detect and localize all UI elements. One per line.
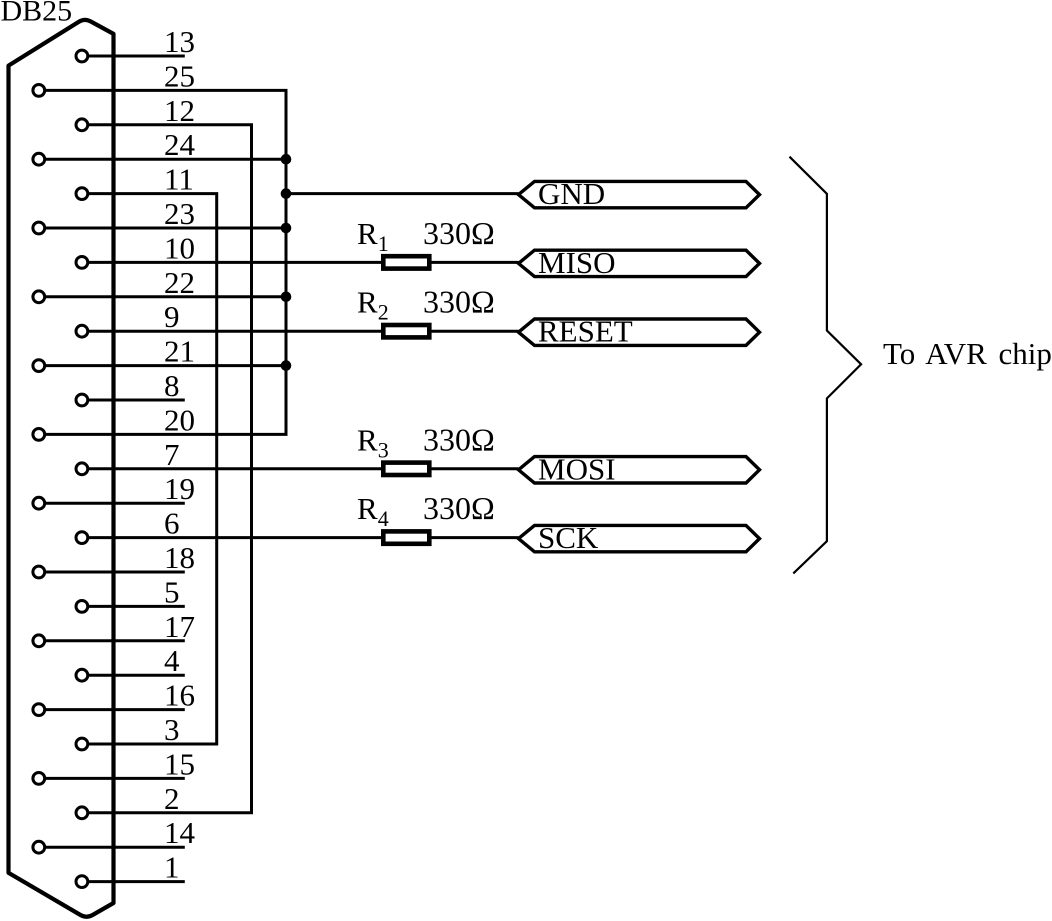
svg-text:17: 17 (164, 609, 195, 644)
svg-text:8: 8 (164, 368, 180, 403)
svg-text:330Ω: 330Ω (423, 490, 495, 526)
svg-text:10: 10 (164, 230, 195, 265)
svg-text:13: 13 (164, 24, 195, 59)
svg-text:To AVR chip: To AVR chip (883, 336, 1052, 371)
svg-text:1: 1 (164, 850, 180, 885)
svg-text:6: 6 (164, 506, 180, 541)
svg-text:14: 14 (164, 815, 196, 850)
svg-text:11: 11 (164, 162, 194, 197)
svg-text:19: 19 (164, 471, 195, 506)
svg-text:4: 4 (164, 643, 180, 678)
svg-text:22: 22 (164, 265, 195, 300)
svg-text:330Ω: 330Ω (423, 421, 495, 457)
svg-text:7: 7 (164, 437, 180, 472)
svg-text:SCK: SCK (538, 520, 599, 555)
svg-text:16: 16 (164, 678, 195, 713)
svg-text:RESET: RESET (538, 314, 633, 349)
svg-text:MISO: MISO (538, 245, 616, 280)
svg-text:3: 3 (164, 712, 180, 747)
svg-text:330Ω: 330Ω (423, 215, 495, 251)
svg-text:21: 21 (164, 334, 195, 369)
svg-text:24: 24 (164, 127, 196, 162)
svg-text:12: 12 (164, 93, 195, 128)
svg-text:5: 5 (164, 574, 180, 609)
svg-text:9: 9 (164, 299, 180, 334)
svg-text:MOSI: MOSI (538, 451, 616, 486)
svg-text:20: 20 (164, 402, 195, 437)
svg-text:18: 18 (164, 540, 195, 575)
svg-text:330Ω: 330Ω (423, 284, 495, 320)
svg-text:15: 15 (164, 746, 195, 781)
svg-text:DB25: DB25 (1, 0, 73, 28)
svg-text:GND: GND (538, 176, 605, 211)
svg-text:25: 25 (164, 58, 195, 93)
svg-text:2: 2 (164, 781, 180, 816)
svg-text:23: 23 (164, 196, 195, 231)
